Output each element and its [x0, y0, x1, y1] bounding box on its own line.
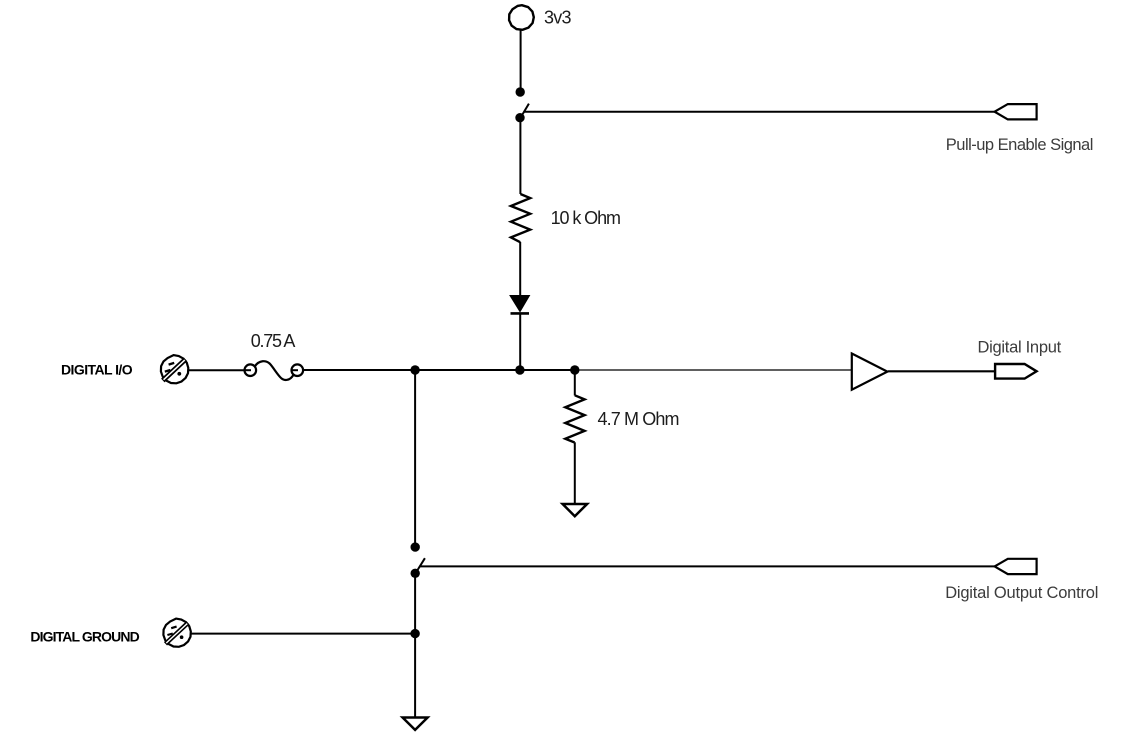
port flag Digital Output Control: [995, 559, 1037, 574]
wire buffer to Digital Input flag: [888, 370, 995, 372]
ground (bottom): [403, 718, 428, 730]
wire 4.7M resistor top: [574, 370, 576, 396]
svg-text:3v3: 3v3: [544, 8, 572, 28]
svg-text:10 k Ohm: 10 k Ohm: [551, 208, 621, 228]
junction node A (left branch): [410, 365, 419, 374]
wire switch S2 down to ground: [414, 576, 416, 718]
wire DIGITAL GROUND terminal to node D: [191, 633, 415, 635]
resistor R2 4.7 M Ohm: [565, 395, 584, 442]
power port 3v3: [509, 5, 534, 30]
wire terminal to fuse: [189, 369, 245, 371]
wire diode to main node: [519, 313, 521, 370]
junction node B (pull-up): [515, 365, 524, 374]
svg-text:0.75 A: 0.75 A: [251, 331, 296, 351]
wire fuse to node C (main): [303, 369, 575, 371]
svg-text:DIGITAL GROUND: DIGITAL GROUND: [30, 628, 139, 644]
svg-text:Digital Output Control: Digital Output Control: [945, 584, 1098, 602]
wire switch to pull-up flag: [524, 111, 994, 113]
junction node C (4.7M): [570, 365, 579, 374]
junction node D (digital ground net): [410, 629, 419, 638]
resistor R1 10 k Ohm: [511, 194, 530, 242]
port flag Digital Input: [995, 364, 1037, 379]
ground (4.7M): [563, 504, 588, 516]
svg-text:DIGITAL I/O: DIGITAL I/O: [61, 362, 133, 378]
wire node C to buffer (thin): [576, 369, 852, 371]
wire node A down to switch S2: [414, 370, 416, 544]
svg-text:Pull-up Enable Signal: Pull-up Enable Signal: [946, 136, 1094, 154]
terminal DIGITAL I/O: [161, 355, 188, 383]
fuse F1 0.75 A: [245, 361, 304, 380]
wire 3v3 to switch: [520, 30, 522, 90]
wire switch S2 to output control flag: [420, 565, 995, 567]
switch S2 (output control): [411, 542, 425, 578]
port flag Pull-up Enable Signal: [995, 104, 1037, 119]
svg-text:Digital Input: Digital Input: [978, 338, 1062, 356]
svg-text:4.7 M Ohm: 4.7 M Ohm: [598, 409, 680, 429]
terminal DIGITAL GROUND: [163, 619, 190, 647]
diode D1: [510, 296, 530, 314]
wire resistor to diode: [519, 242, 521, 296]
switch S1 (pull-up enable): [515, 87, 529, 122]
wire switch to resistor R1: [519, 120, 521, 194]
wire resistor R2 to ground: [574, 442, 576, 504]
buffer U1: [852, 354, 888, 390]
